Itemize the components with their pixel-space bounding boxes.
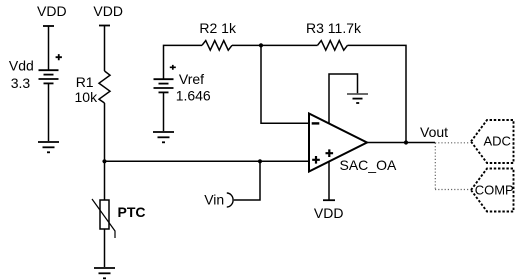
svg-text:VDD: VDD — [37, 3, 67, 19]
resistor R1 (vertical zigzag) — [99, 71, 110, 103]
node A junction dot — [102, 159, 106, 163]
wire op-amp top pin to ground G4 — [329, 74, 358, 124]
dotted wire to COMP — [435, 189, 470, 191]
svg-text:R3 11.7k: R3 11.7k — [306, 20, 362, 36]
op-amp U1 triangle — [309, 114, 367, 172]
resistor R1 labels — [75, 74, 99, 105]
wire op-amp bottom pin to VDD stub — [328, 162, 330, 201]
svg-text:R1: R1 — [76, 74, 94, 90]
VDD power symbol bar (second column) — [99, 25, 110, 27]
node D junction dot (feedback tap) — [404, 140, 408, 144]
ground G1 — [38, 142, 59, 152]
svg-text:Vin: Vin — [204, 192, 224, 208]
wire VDD to resistor R1 — [104, 26, 106, 72]
battery V1 plates — [39, 70, 59, 83]
wire VDD to battery V1 — [48, 26, 50, 70]
op-amp U1 minus symbol — [312, 122, 320, 124]
COMP block (dashed pentagon) — [471, 169, 514, 212]
svg-text:R2 1k: R2 1k — [199, 20, 237, 36]
svg-text:COMP: COMP — [475, 183, 514, 198]
battery V1 value label Vdd 3.3 — [9, 58, 34, 92]
wire battery V2 to ground — [163, 92, 165, 131]
wire node C down to inverting input — [261, 45, 309, 123]
op-amp U1 plus symbol (input) — [312, 156, 320, 164]
svg-text:VDD: VDD — [93, 3, 123, 19]
battery V2 (Vref) top wire to R2 net — [164, 45, 203, 79]
wire R1 to node A — [104, 103, 106, 161]
wire Vin to node B — [234, 161, 260, 200]
battery V1 plus sign — [56, 54, 62, 60]
wire battery V1 to ground — [48, 83, 50, 141]
svg-text:Vout: Vout — [420, 124, 448, 140]
svg-text:3.3: 3.3 — [11, 75, 31, 91]
svg-text:Vref: Vref — [179, 71, 204, 87]
battery V2 plus sign — [170, 65, 176, 70]
ground G4 — [347, 94, 368, 103]
wire node A down to PTC — [104, 161, 106, 200]
svg-text:SAC_OA: SAC_OA — [340, 157, 397, 173]
svg-text:PTC: PTC — [118, 204, 146, 220]
node C junction dot — [259, 43, 263, 47]
PTC thermistor body — [100, 200, 109, 229]
ground G3 — [153, 132, 174, 142]
VDD power symbol bar (left) — [43, 25, 54, 27]
PTC diagonal strike — [92, 199, 115, 238]
ground G2 — [94, 268, 115, 278]
dotted wire Vout to ADC — [435, 142, 470, 144]
dotted wire Vout down — [434, 143, 436, 190]
svg-text:10k: 10k — [75, 89, 99, 105]
op-amp U1 plus symbol (inner) — [326, 149, 334, 157]
svg-text:1.646: 1.646 — [176, 88, 211, 104]
battery V2 labels Vref 1.646 — [176, 71, 211, 104]
node B junction dot — [258, 159, 262, 163]
VDD stub bar — [323, 199, 335, 201]
svg-text:Vdd: Vdd — [9, 58, 34, 74]
svg-text:ADC: ADC — [484, 134, 511, 149]
wire op-amp output to Vout — [367, 142, 435, 144]
svg-text:VDD: VDD — [314, 205, 344, 221]
wire R3 to output node — [348, 45, 407, 142]
Vin port connector arc — [227, 193, 233, 207]
resistor R2 (horizontal zigzag) — [202, 41, 232, 51]
ADC block (dashed pentagon) — [471, 120, 514, 163]
wire node A to node B to op-amp + input — [105, 160, 310, 162]
wire PTC to ground — [104, 229, 106, 267]
wire R2 to R3 with junction — [232, 44, 318, 46]
battery V2 plates — [154, 79, 174, 92]
resistor R3 (horizontal zigzag) — [318, 41, 348, 51]
